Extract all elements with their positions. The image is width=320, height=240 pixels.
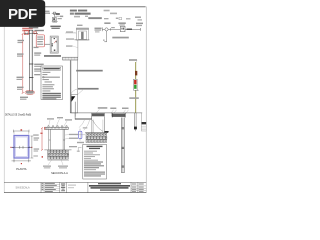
drop conductor bbox=[106, 31, 108, 42]
red dimension line left bbox=[41, 128, 43, 150]
pole red note text row 2 bbox=[22, 30, 30, 31]
anchor bolts bbox=[48, 126, 68, 128]
dimension under footing bbox=[48, 159, 69, 161]
labels right end bbox=[136, 23, 143, 25]
pole base plate lines bbox=[26, 90, 34, 92]
bottom labels bbox=[43, 166, 51, 167]
pole joint band 1 bbox=[29, 63, 33, 65]
crossarm ticks bbox=[25, 32, 36, 34]
bottom leaders bbox=[48, 159, 52, 165]
drop foot tick bbox=[104, 41, 106, 43]
top extension ticks bbox=[13, 131, 15, 135]
red mark right of pole top bbox=[34, 31, 36, 34]
niche leader to label bbox=[78, 90, 83, 95]
conector caption line1 bbox=[50, 26, 60, 28]
slab top line bbox=[70, 112, 142, 114]
coupling 2 bbox=[122, 146, 125, 148]
colored dots on dimension bbox=[10, 147, 11, 148]
top dimension line bbox=[13, 130, 29, 132]
pole right edge bbox=[32, 30, 34, 91]
pole left label b bbox=[17, 53, 24, 54]
bottom extension ticks bbox=[13, 158, 15, 162]
panel terminal bottom bbox=[54, 50, 56, 51]
right pedestal wall bbox=[62, 129, 64, 150]
right leader labels bbox=[69, 134, 78, 135]
logo scribble bbox=[61, 183, 65, 191]
buried duct bank top line bbox=[85, 132, 108, 134]
text inside red box bbox=[37, 36, 43, 44]
red dimension line along pole bbox=[22, 34, 24, 94]
right cells lines bbox=[131, 186, 146, 191]
cable curve in duct bbox=[93, 120, 104, 131]
conector stem bbox=[54, 14, 56, 21]
title framed bbox=[43, 67, 61, 70]
conector branch bbox=[55, 15, 60, 17]
conector body box bbox=[52, 17, 56, 20]
panel terminals left bbox=[52, 43, 53, 44]
sheet left border bbox=[3, 7, 5, 193]
right vertical dimension bbox=[31, 136, 33, 158]
conector left labels bbox=[46, 13, 51, 14]
tick bbox=[137, 89, 138, 92]
service wire (olive) bbox=[135, 62, 137, 113]
wall labels left column bbox=[66, 31, 73, 32]
niche drop conductor bbox=[74, 102, 76, 117]
title block bottom line bbox=[4, 192, 146, 194]
pole right label c bbox=[34, 68, 43, 69]
niche flag (black triangle) bbox=[72, 96, 76, 101]
meter box bbox=[120, 26, 125, 31]
middle faint cell bbox=[68, 185, 76, 186]
sheet right border bbox=[145, 7, 147, 193]
blue square bbox=[14, 136, 29, 159]
label pozo conexion electrica existente bbox=[76, 70, 103, 72]
pole gray label right of top bbox=[34, 30, 44, 31]
tiny label on line bbox=[111, 27, 115, 28]
blue connector detail bbox=[83, 127, 88, 128]
pole right label b bbox=[34, 64, 44, 65]
outlet box on right wall bbox=[134, 127, 137, 130]
svg-text:PLANTA: PLANTA bbox=[16, 167, 26, 171]
right side labels bbox=[34, 137, 40, 138]
CPI alternado label bbox=[112, 37, 129, 39]
duct cross-section detail (top) bbox=[65, 32, 76, 34]
svg-text:PDF: PDF bbox=[8, 6, 37, 23]
slab opening ticks bbox=[103, 113, 105, 117]
duct walls bbox=[91, 120, 93, 133]
leader bbox=[136, 60, 138, 63]
leader from pole to panel bbox=[45, 43, 51, 45]
wall riser above sidewalk bbox=[77, 40, 79, 57]
brown junction box bbox=[135, 71, 137, 76]
coupling 1 bbox=[122, 127, 125, 129]
line after fuse bbox=[125, 28, 140, 30]
node circle bbox=[105, 28, 108, 31]
seccion label bbox=[51, 171, 68, 175]
buried duct bank bricks bbox=[86, 133, 107, 142]
caja bottom thick line bbox=[75, 117, 92, 119]
duct bottom cap bbox=[121, 172, 125, 174]
pole joint band 2 bbox=[29, 77, 33, 79]
leaders to wall bbox=[73, 32, 78, 48]
top leader labels bbox=[47, 118, 54, 119]
label above node bbox=[104, 22, 110, 24]
coupling 3 bbox=[122, 165, 125, 167]
caja de pase box in slab bbox=[74, 113, 76, 120]
pole red note text row 1 bbox=[22, 28, 33, 30]
left pedestal wall bbox=[48, 129, 50, 150]
arrow mark bbox=[105, 131, 109, 132]
pole right label d bbox=[34, 74, 40, 75]
red ellipse highlight at pole base bbox=[25, 90, 35, 94]
project title rows bbox=[98, 183, 121, 184]
panel caption bbox=[44, 55, 61, 57]
meter green indicator bbox=[134, 85, 136, 89]
panel terminal right bbox=[56, 40, 57, 43]
sheet top border bbox=[4, 6, 145, 8]
conector caption line2 bbox=[51, 28, 59, 29]
label caja de pase bbox=[98, 107, 108, 109]
niche box on wall bbox=[71, 95, 77, 113]
panel terminal top bbox=[54, 37, 55, 40]
label pozo tierra bbox=[129, 97, 139, 99]
conector side text bbox=[58, 18, 62, 19]
end terminal bbox=[139, 28, 141, 31]
sin escala label bbox=[15, 187, 29, 190]
red callout box on crossarm bbox=[24, 31, 28, 35]
pole right label a bbox=[34, 52, 41, 53]
slab leader labels bbox=[110, 108, 116, 110]
red dot left of footing bbox=[42, 156, 43, 157]
bottom dimension line bbox=[12, 160, 32, 162]
planta label bbox=[16, 167, 26, 171]
pole left label a bbox=[18, 40, 25, 41]
ground line above footing bbox=[44, 149, 71, 151]
meter label bbox=[118, 22, 125, 24]
svg-text:SECCION A-A: SECCION A-A bbox=[51, 171, 68, 175]
pedestal rungs bbox=[63, 139, 65, 141]
body rows bbox=[84, 151, 100, 161]
svg-text:DETALLE DE Chaz(B) Ra(B): DETALLE DE Chaz(B) Ra(B) bbox=[5, 113, 31, 116]
conector clamp blob bbox=[56, 13, 60, 15]
svg-text:SIN ESCALA: SIN ESCALA bbox=[15, 187, 29, 190]
pole base caption bbox=[20, 97, 28, 98]
title block dividers bbox=[41, 182, 138, 192]
center dimension through square bbox=[11, 146, 32, 148]
pole crossarm bbox=[24, 32, 38, 34]
title rows bbox=[87, 146, 103, 147]
slab dark band A bbox=[92, 113, 104, 116]
panel inner border bbox=[51, 37, 57, 52]
pole left label d bbox=[17, 87, 24, 88]
pole left label c bbox=[17, 77, 24, 78]
pole center line bbox=[30, 30, 32, 91]
title block top line bbox=[4, 181, 146, 183]
conector top bar bbox=[52, 12, 58, 14]
red tick at beam left bbox=[44, 127, 45, 130]
meter enclosure bbox=[134, 79, 138, 90]
panel red jumper bbox=[54, 40, 57, 43]
body rows bbox=[42, 72, 60, 92]
wall inner line bbox=[77, 60, 79, 94]
sidewalk bar bbox=[63, 57, 78, 60]
far right wall line bbox=[140, 113, 142, 122]
revision table bbox=[41, 182, 60, 192]
leader curve to niche bbox=[71, 89, 78, 95]
pole left edge bbox=[29, 30, 31, 91]
PDF badge bbox=[0, 0, 45, 27]
label antes trio medidor bbox=[129, 59, 137, 61]
leader curves under slab bbox=[79, 120, 85, 128]
pole dark label top bbox=[29, 27, 39, 29]
footing bricks bbox=[48, 150, 69, 159]
meter red indicator bbox=[134, 80, 136, 84]
feeder line left bbox=[95, 28, 102, 29]
slab dark band B (beam) bbox=[112, 114, 125, 117]
base channel beam bbox=[46, 127, 68, 129]
red center dot below bbox=[21, 163, 22, 164]
panel outer border bbox=[50, 36, 58, 53]
bracket symbol left of notes box bbox=[78, 148, 81, 153]
pole top cap bbox=[29, 29, 33, 31]
right wall below slab bbox=[133, 113, 135, 127]
red tall callout box right of pole bbox=[36, 35, 44, 47]
label hacia sub tablero electrico general bbox=[78, 88, 99, 90]
line to meter bbox=[108, 28, 120, 30]
beam end extensions bbox=[44, 126, 46, 128]
far right mini table bbox=[141, 122, 146, 124]
wall thick line bbox=[70, 60, 72, 113]
fuse block on line bbox=[127, 29, 132, 31]
conector base bbox=[52, 21, 58, 23]
